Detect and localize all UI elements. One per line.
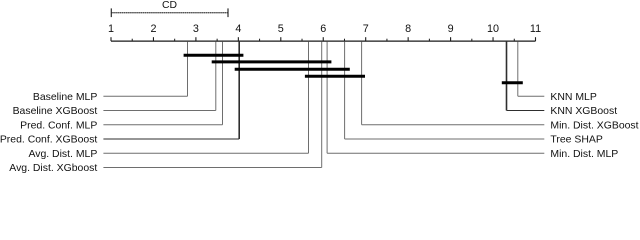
svg-text:Min. Dist. MLP: Min. Dist. MLP (550, 149, 618, 160)
svg-text:Baseline MLP: Baseline MLP (33, 92, 97, 103)
svg-text:Avg. Dist. MLP: Avg. Dist. MLP (28, 149, 97, 160)
svg-text:8: 8 (405, 23, 411, 35)
svg-text:9: 9 (448, 23, 454, 35)
svg-text:4: 4 (235, 23, 241, 35)
svg-text:1: 1 (108, 23, 114, 35)
svg-text:3: 3 (193, 23, 199, 35)
svg-text:Avg. Dist. XGboost: Avg. Dist. XGboost (9, 163, 97, 173)
svg-text:Pred. Conf. XGBoost: Pred. Conf. XGBoost (0, 135, 97, 146)
svg-text:CD: CD (162, 0, 177, 11)
svg-text:11: 11 (530, 23, 541, 35)
svg-text:Tree SHAP: Tree SHAP (550, 135, 602, 146)
svg-text:KNN XGBoost: KNN XGBoost (550, 106, 617, 117)
svg-text:6: 6 (320, 23, 326, 35)
svg-text:5: 5 (278, 23, 284, 35)
svg-text:Pred. Conf. MLP: Pred. Conf. MLP (20, 120, 97, 131)
svg-text:10: 10 (487, 23, 499, 35)
svg-text:2: 2 (150, 23, 156, 35)
svg-text:Min. Dist. XGBoost: Min. Dist. XGBoost (550, 120, 638, 131)
svg-text:KNN MLP: KNN MLP (550, 92, 596, 103)
svg-text:7: 7 (363, 23, 369, 35)
svg-text:Baseline XGBoost: Baseline XGBoost (13, 106, 98, 117)
